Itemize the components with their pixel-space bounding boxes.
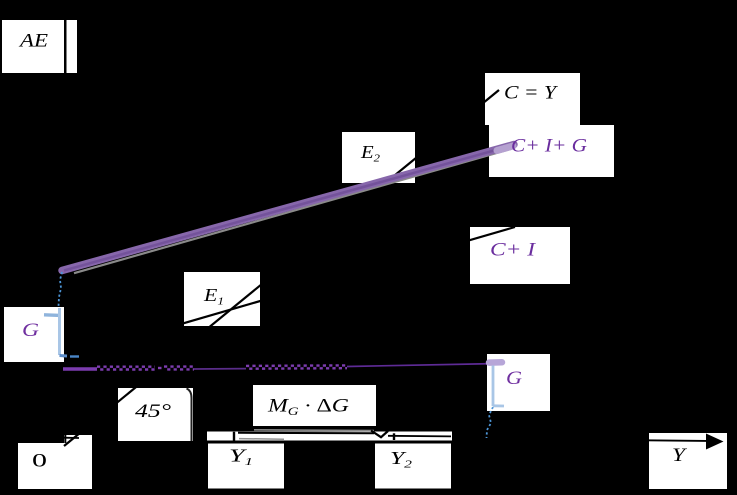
C+I+G thick purple line shadow: [74, 149, 512, 274]
svg-text:C+ I: C+ I: [490, 240, 537, 261]
left brace top tick: [44, 313, 60, 317]
45-degree line (C=Y): [64, 90, 499, 446]
box narrow (right of y-axis): [67, 20, 78, 73]
x-axis gray segment in strip: [239, 438, 284, 441]
svg-text:MG · ΔG: MG · ΔG: [267, 396, 350, 419]
box E1: [184, 272, 260, 326]
horizontal purple line lavender end blob: [489, 359, 502, 366]
right brace vertical: [492, 366, 495, 407]
svg-text:G: G: [506, 368, 522, 389]
svg-text:0: 0: [32, 451, 47, 472]
horizontal purple line thick solid start: [63, 367, 97, 371]
svg-text:45°: 45°: [135, 401, 172, 422]
box C+I: [470, 227, 570, 284]
horizontal purple squiggle 2 lower row: [167, 368, 194, 370]
svg-text:AE: AE: [18, 31, 49, 52]
svg-text:C = Y: C = Y: [504, 83, 559, 104]
box AE: [2, 20, 64, 73]
box Y2: [375, 444, 451, 489]
horizontal purple squiggle 3 lower row: [249, 367, 347, 370]
box C=Y: [485, 73, 580, 125]
tick Y1: [233, 432, 235, 441]
y-axis: [64, 14, 66, 443]
horizontal purple squiggle 1 upper row: [97, 366, 155, 368]
horizontal purple squiggle 2 upper row: [164, 365, 194, 367]
box E2: [342, 132, 415, 183]
tick Y2: [393, 433, 395, 440]
box 0: [18, 443, 92, 489]
C+I+G line dark core: [64, 146, 512, 271]
horizontal purple squiggle 1 lower row: [100, 368, 155, 370]
box G left: [4, 307, 64, 362]
left brace bottom dash: [70, 355, 79, 357]
blue dotted drop left (from C+I+G start): [59, 272, 63, 306]
x-axis segment at origin: [64, 437, 79, 439]
left brace vertical: [58, 308, 61, 355]
angle arc right of 45 box: [187, 389, 192, 442]
C+I+G line light tip: [497, 146, 513, 151]
box Y1: [208, 444, 284, 489]
box C+I+G: [489, 125, 614, 177]
left brace bottom hook: [60, 354, 68, 358]
horizontal purple dot: [158, 367, 162, 369]
multiplier arrow shaft Y1 to Y2: [238, 432, 374, 434]
gray shadow line under M box (arrow shadow): [254, 429, 374, 432]
horizontal purple thin solid right: [347, 364, 500, 367]
x-axis segment right of Y2 tick: [388, 435, 451, 438]
blue dotted drop right (to Y2): [487, 407, 494, 438]
multiplier arrowhead: [371, 431, 388, 438]
box MG.dG: [253, 385, 376, 426]
x-axis arrowhead: [706, 434, 724, 450]
axis strip Y1-Y2: [207, 432, 452, 441]
svg-text:C+ I+ G: C+ I+ G: [511, 136, 587, 157]
box Y: [649, 433, 727, 489]
svg-text:G: G: [22, 320, 39, 341]
box 0 step: [64, 435, 92, 444]
box G right: [487, 354, 550, 411]
horizontal purple thin solid middle: [194, 368, 246, 370]
C+I line: [64, 227, 515, 358]
C+I+G thick purple line: [62, 145, 514, 271]
x-axis segment through Y box: [646, 439, 706, 442]
right brace bottom tick: [493, 404, 504, 407]
horizontal purple squiggle 3 upper row: [246, 364, 347, 367]
box 45deg: [118, 388, 193, 441]
